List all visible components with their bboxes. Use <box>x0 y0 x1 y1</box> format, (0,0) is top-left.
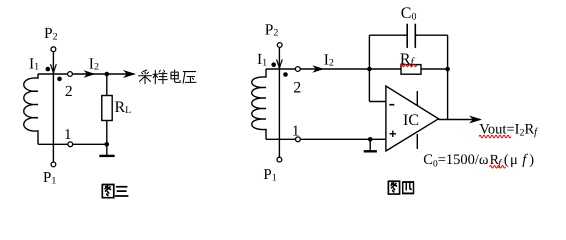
svg-text:I1: I1 <box>257 51 267 68</box>
op-amp plus sign <box>390 131 396 137</box>
svg-text:1: 1 <box>64 127 72 143</box>
minus input wire <box>369 101 386 103</box>
node 1 open circle (right) <box>296 137 301 142</box>
resistor RL leads <box>106 74 108 96</box>
op-amp power pins <box>416 91 418 105</box>
arrow I2 mid-wire <box>84 70 96 77</box>
svg-text:P2: P2 <box>265 21 279 38</box>
ground (left) bar <box>99 155 114 157</box>
output wire <box>439 119 481 121</box>
arrow to sampling voltage <box>123 70 136 78</box>
node 2 open circle (left) <box>68 72 73 77</box>
red squiggle under Rf label <box>401 64 417 67</box>
junction dot I1 (right) <box>271 62 276 67</box>
arrow I2 mid-wire (right) <box>312 65 324 72</box>
junction dot node 2 (right) <box>283 72 288 77</box>
node 1 open circle (left) <box>68 142 73 147</box>
wire: P2 lead / primary vertical (right) <box>278 47 280 157</box>
junction dot at I1 <box>46 67 51 72</box>
terminal P1 (right) <box>277 157 282 162</box>
wire: bottom horizontal (tap 1 line) <box>38 143 107 145</box>
red squiggle under formula Rf <box>490 166 506 169</box>
op-amp minus sign <box>389 104 394 106</box>
inductor winding (left coil) <box>24 74 38 144</box>
inductor winding (right coil) <box>252 69 266 139</box>
junction dot feedback left <box>367 67 372 72</box>
feedback right vertical wire <box>447 35 449 119</box>
svg-text:I1: I1 <box>29 55 39 72</box>
ground (right) stem <box>369 139 371 150</box>
C0 branch wire right <box>415 34 447 36</box>
capacitor C0 plates <box>406 24 408 48</box>
caption 图四 <box>388 181 413 194</box>
junction dot RL top <box>105 72 110 77</box>
op-amp IC triangle <box>386 86 439 151</box>
svg-text:C0: C0 <box>401 5 417 22</box>
wire: bottom tap-1 line to op-amp + input <box>266 138 386 140</box>
svg-text:C0=1500/ωRf(μf): C0=1500/ωRf(μf) <box>423 152 534 170</box>
svg-text:I2: I2 <box>89 55 99 72</box>
junction dot RL bottom / ground <box>105 142 110 147</box>
svg-text:RL: RL <box>115 99 132 116</box>
svg-text:P1: P1 <box>263 167 276 183</box>
C0 branch wire left <box>369 34 407 36</box>
svg-text:2: 2 <box>65 83 73 100</box>
terminal P2 (left) <box>51 47 56 52</box>
resistor RL body <box>102 96 112 121</box>
feedback left vertical wire <box>368 35 370 101</box>
terminal P2 (right) <box>277 43 282 48</box>
arrow down on P2 lead (right) <box>277 59 283 68</box>
terminal P1 (left) <box>51 162 56 167</box>
ground (right) bar <box>364 150 377 152</box>
caption 图三 <box>102 184 127 197</box>
junction dot ground tap (right) <box>368 137 373 142</box>
arrow down on P2 lead (current into node 2) <box>51 64 57 73</box>
node 2 open circle (right) <box>295 67 300 72</box>
resistor Rf body <box>401 65 421 75</box>
wire: top horizontal I2 line to feedback node <box>266 68 448 70</box>
svg-text:IC: IC <box>403 112 419 129</box>
junction dot feedback right <box>445 67 450 72</box>
svg-text:1: 1 <box>292 123 300 139</box>
ground (left) stem <box>106 144 108 155</box>
wire: top horizontal (secondary tap 2 to sampling output) <box>38 73 134 75</box>
svg-text:I2: I2 <box>324 51 334 68</box>
wire: P2 lead / primary vertical <box>52 52 54 163</box>
red squiggle under Vout <box>479 135 511 138</box>
label 采样电压 (sampling voltage) <box>139 70 196 84</box>
svg-text:P1: P1 <box>43 170 56 186</box>
arrow Vout output <box>469 116 482 124</box>
svg-text:2: 2 <box>293 80 301 97</box>
junction dot at node 2 label <box>57 77 62 82</box>
svg-text:P2: P2 <box>44 25 58 42</box>
